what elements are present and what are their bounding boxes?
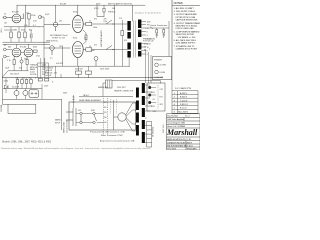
svg-text:Iss. 2: Iss. 2 xyxy=(185,116,190,118)
svg-text:47k: 47k xyxy=(94,19,97,21)
svg-text:POINT TO CH.: POINT TO CH. xyxy=(52,38,66,40)
input jack J3 xyxy=(3,55,6,58)
svg-text:120: 120 xyxy=(104,107,107,109)
label T2 taps xyxy=(151,92,157,113)
rear panel box xyxy=(69,102,136,130)
svg-text:MILTON KEYNES MK1 1DQ: MILTON KEYNES MK1 1DQ xyxy=(167,146,193,148)
resistor R4 xyxy=(24,32,26,38)
svg-text:220k: 220k xyxy=(31,15,35,17)
wire panel series bottom xyxy=(76,122,104,124)
svg-text:FOR 16 OHM LOAD: FOR 16 OHM LOAD xyxy=(176,27,195,30)
svg-text:0.68: 0.68 xyxy=(33,20,37,22)
svg-text:EXT: EXT xyxy=(160,97,163,99)
wire volume to V4 xyxy=(44,24,70,26)
fuse F1 xyxy=(80,112,82,123)
wire speaker drops xyxy=(146,49,152,83)
tube V1 xyxy=(12,14,21,23)
svg-text:Output Transformer: Output Transformer xyxy=(135,11,161,14)
svg-text:4: 4 xyxy=(147,35,148,37)
svg-text:8: 8 xyxy=(147,50,148,52)
wire screen node riser xyxy=(97,5,104,16)
wire pots to bus xyxy=(14,63,27,71)
svg-text:8.2k: 8.2k xyxy=(104,21,108,23)
svg-text:470k: 470k xyxy=(21,29,25,31)
capacitor C1 xyxy=(23,14,25,20)
connector CON1 xyxy=(106,80,113,88)
svg-text:16 OHM: 16 OHM xyxy=(160,65,167,67)
svg-text:C 170 V: C 170 V xyxy=(180,100,188,102)
switch S2 anode top xyxy=(106,20,115,24)
svg-text:Models: 1986, 198L, 1987, 4500: Models: 1986, 198L, 1987, 4500, 4501 & 4… xyxy=(2,141,52,144)
output transformer T1 secondary xyxy=(138,20,141,57)
wire PI node riser xyxy=(114,5,116,20)
svg-text:REAR PANEL ASSEMBLY: REAR PANEL ASSEMBLY xyxy=(79,99,102,102)
svg-text:SELECTED IN TEST: SELECTED IN TEST xyxy=(176,34,196,36)
svg-text:ENGLAND: ENGLAND xyxy=(187,148,197,150)
svg-text:2. 250V SUPPLY 330uF: 2. 250V SUPPLY 330uF xyxy=(174,11,196,13)
svg-text:2A SLO: 2A SLO xyxy=(83,94,90,97)
svg-text:MATCHED TO 3.8k A-A: MATCHED TO 3.8k A-A xyxy=(176,25,198,28)
title block frame xyxy=(167,114,201,150)
svg-text:Amp chassis to rear panel wiri: Amp chassis to rear panel wiring 2 x 13A xyxy=(100,139,135,142)
label row1 values xyxy=(14,29,32,31)
tube V2b xyxy=(24,48,33,57)
capacitor C19 bypass xyxy=(20,60,23,63)
svg-text:DRG 1959: DRG 1959 xyxy=(163,125,165,134)
wire selector top line xyxy=(100,96,133,98)
svg-text:8: 8 xyxy=(144,49,145,51)
jack JP3 xyxy=(148,101,151,104)
svg-text:SLOPE: SLOPE xyxy=(30,74,37,76)
wire risers row1 lower xyxy=(11,27,31,42)
resistor R11 dropper xyxy=(86,71,92,74)
svg-text:CATHODE RESISTORS: CATHODE RESISTORS xyxy=(176,19,198,22)
resistor R10 dropper xyxy=(76,71,82,74)
wire feedback vertical xyxy=(121,20,123,66)
resistor R20 cathode V2b xyxy=(26,60,28,65)
svg-text:COM: COM xyxy=(144,43,149,45)
wire cap links xyxy=(17,84,43,99)
jack JA2 xyxy=(155,70,159,74)
label OT taps xyxy=(147,21,152,56)
wire dropper riser xyxy=(103,5,105,16)
svg-text:4. OUTPUT TRANSFORMER: 4. OUTPUT TRANSFORMER xyxy=(174,22,200,25)
resistor R1 xyxy=(28,14,30,20)
label bias note xyxy=(50,34,68,40)
svg-text:TEL 0908: TEL 0908 xyxy=(167,149,176,150)
wire jack stubs xyxy=(151,88,156,103)
svg-text:4: 4 xyxy=(147,54,148,56)
svg-text:10k 220uF: 10k 220uF xyxy=(10,74,20,76)
svg-text:465V: 465V xyxy=(96,3,101,5)
wire psu lower L xyxy=(3,104,36,113)
svg-text:68k: 68k xyxy=(14,29,17,31)
wire row2 bus xyxy=(3,43,51,45)
svg-text:V2: V2 xyxy=(4,45,6,47)
wire T2 sec taps xyxy=(145,85,152,143)
svg-text:ECC83: ECC83 xyxy=(20,46,26,48)
svg-text:(SEE NOTE 5): (SEE NOTE 5) xyxy=(46,41,58,43)
wire grid bus row1 xyxy=(4,26,40,28)
svg-text:230V SET: 230V SET xyxy=(117,87,126,89)
label row2 values xyxy=(7,46,37,62)
wire dropper drops xyxy=(79,66,89,77)
svg-text:FITTED WITH 1 OHM: FITTED WITH 1 OHM xyxy=(176,17,196,19)
wire psu bus y88.5 xyxy=(3,88,42,90)
svg-text:6. ALL CAPS 400V WKG: 6. ALL CAPS 400V WKG xyxy=(174,39,197,42)
svg-text:47k 5W: 47k 5W xyxy=(146,39,152,41)
input jack J1 xyxy=(3,16,12,19)
svg-text:320: 320 xyxy=(19,67,22,69)
svg-text:3. OUTPUT VALVES ARE: 3. OUTPUT VALVES ARE xyxy=(174,13,198,16)
svg-text:820: 820 xyxy=(29,29,32,31)
wire rail left tick xyxy=(16,5,18,14)
wire psu feed right xyxy=(79,96,100,98)
notes box border xyxy=(171,0,173,58)
wire tone verticals xyxy=(38,58,49,78)
resistor R16 on rail xyxy=(38,78,42,81)
jack JA1 xyxy=(155,63,159,67)
svg-text:8: 8 xyxy=(147,31,148,33)
svg-text:0.68 35V: 0.68 35V xyxy=(56,63,64,65)
label title address xyxy=(167,138,197,151)
wire V4 anode to OT xyxy=(83,23,127,25)
wire PI vertical xyxy=(114,20,116,66)
input jack J2 xyxy=(3,48,6,51)
svg-text:Schematic archive copy . Marsh: Schematic archive copy . Marshall 50 wat… xyxy=(1,147,151,150)
svg-text:820k: 820k xyxy=(33,46,37,48)
svg-text:B 320 V: B 320 V xyxy=(180,97,188,99)
resistor R22 presence xyxy=(156,30,158,34)
svg-text:220k 5W: 220k 5W xyxy=(75,69,83,71)
resistor R15 screen V5 xyxy=(86,48,92,51)
svg-text:ECC83: ECC83 xyxy=(60,3,66,5)
svg-text:Bias 30mV: Bias 30mV xyxy=(178,111,188,113)
wire bus row1 bottom xyxy=(3,41,51,43)
resistor R3 xyxy=(18,32,20,38)
svg-text:POST 66 3.4k: POST 66 3.4k xyxy=(143,41,154,43)
resistor R25 xyxy=(21,80,24,84)
svg-text:FS1: FS1 xyxy=(78,110,81,112)
svg-text:230: 230 xyxy=(104,117,107,119)
wire psu drop xyxy=(61,99,63,130)
label lower taps xyxy=(144,43,150,51)
svg-text:Circuit Diagram 1987: Circuit Diagram 1987 xyxy=(167,122,185,125)
wire diagonal ground xyxy=(2,71,8,78)
wire psu hangers xyxy=(6,78,31,93)
svg-text:1k: 1k xyxy=(89,46,91,48)
resistor R26 xyxy=(25,80,28,84)
svg-text:47k: 47k xyxy=(94,44,97,46)
capacitor C3 link xyxy=(38,15,41,18)
svg-text:MAINS LEAD: MAINS LEAD xyxy=(62,121,65,133)
svg-text:240: 240 xyxy=(104,122,107,124)
wire row2 lower bus xyxy=(8,70,29,72)
capacitor C20 presence xyxy=(156,33,158,38)
tube V5 power xyxy=(72,42,83,58)
wire selector feed xyxy=(113,100,115,130)
jack JP1 xyxy=(148,86,151,89)
mains transformer T2 secondary xyxy=(142,83,145,143)
potentiometer VR4 volume I xyxy=(53,22,58,31)
resistor R23 presence xyxy=(163,30,165,34)
svg-text:50Hz MAINS SUPPLY: 50Hz MAINS SUPPLY xyxy=(176,42,197,45)
svg-text:PRES 5k: PRES 5k xyxy=(108,11,115,13)
svg-text:V1: V1 xyxy=(4,14,6,16)
wire selector stem xyxy=(114,116,118,118)
resistor R27 xyxy=(30,80,33,84)
wire V1 plate riser xyxy=(25,5,27,13)
wire right border xyxy=(171,58,173,91)
svg-text:VOLTAGES +/- 10%: VOLTAGES +/- 10% xyxy=(178,36,196,39)
switch S1 mains xyxy=(93,112,97,123)
wire mains cable entry xyxy=(72,95,74,108)
voltage table xyxy=(172,91,198,114)
label extra values scatter xyxy=(4,11,127,94)
svg-text:5. COMPONENTS MARKED *: 5. COMPONENTS MARKED * xyxy=(174,30,200,33)
wire volume node drop xyxy=(62,46,64,67)
svg-text:MATCHED VALVES: MATCHED VALVES xyxy=(100,29,103,47)
potentiometer VR5 volume II xyxy=(50,46,55,55)
svg-text:10k: 10k xyxy=(112,8,115,10)
label psu top values xyxy=(4,78,38,89)
svg-text:SPEAKER: SPEAKER xyxy=(154,58,163,61)
diode D1 xyxy=(5,85,9,89)
wire channel link xyxy=(39,17,45,66)
tube V4 power xyxy=(72,15,83,32)
wire mid rail xyxy=(2,77,163,79)
svg-text:Drg. Number: Drg. Number xyxy=(167,115,178,118)
capacitor C21 presence xyxy=(163,33,165,38)
svg-text:8 OHM: 8 OHM xyxy=(160,72,166,74)
label notes text xyxy=(174,7,201,51)
svg-text:7. FIT EARTH LINK TO: 7. FIT EARTH LINK TO xyxy=(174,45,195,48)
svg-text:HEATER CONNECTOR: HEATER CONNECTOR xyxy=(114,89,134,92)
svg-text:OUT: OUT xyxy=(160,89,164,91)
wire psu bus y99.3 xyxy=(3,98,62,100)
wire volume feed riser xyxy=(55,5,57,22)
mains transformer T2 primary xyxy=(136,88,139,136)
svg-text:HT WINDING: HT WINDING xyxy=(153,126,155,137)
label selector ticks xyxy=(104,102,107,124)
wire panel series top xyxy=(76,113,104,115)
wire OT centre tap riser xyxy=(132,5,134,21)
wire panel dashed xyxy=(104,98,108,135)
svg-text:4.7k: 4.7k xyxy=(24,25,28,27)
output transformer T1 core xyxy=(134,21,136,58)
svg-text:100k: 100k xyxy=(93,27,97,29)
wire volume to V5 xyxy=(44,47,70,49)
notes underline xyxy=(172,4,200,6)
wire selector dotted xyxy=(111,99,117,114)
wire V5 anode to OT xyxy=(83,49,127,51)
svg-text:330: 330 xyxy=(24,59,27,61)
wire row1 second bus xyxy=(4,29,14,31)
svg-text:MAINS: MAINS xyxy=(55,118,61,121)
svg-text:EL34: EL34 xyxy=(73,38,77,40)
capacitor C18 multican xyxy=(29,90,39,98)
resistor R24 xyxy=(16,80,19,84)
resistor R2 xyxy=(10,32,12,38)
svg-text:D 83.5 V: D 83.5 V xyxy=(180,104,188,106)
wire V5 cathode xyxy=(77,58,79,67)
svg-text:DENBIGH RD BLETCHLEY: DENBIGH RD BLETCHLEY xyxy=(167,142,192,144)
capacitor C17 xyxy=(23,91,28,96)
svg-text:50uF 450V: 50uF 450V xyxy=(100,69,110,71)
label row1 values top xyxy=(24,25,36,27)
svg-text:COLOUR CODE: COLOUR CODE xyxy=(66,119,68,133)
svg-text:2.7k: 2.7k xyxy=(7,60,11,62)
svg-text:0.022: 0.022 xyxy=(45,14,50,16)
wire panel dashed riser xyxy=(157,85,159,109)
svg-text:SW1: SW1 xyxy=(91,110,95,112)
svg-text:10k LIN: 10k LIN xyxy=(45,75,52,77)
wire cathode taps xyxy=(83,30,86,44)
wire row2 grid xyxy=(6,44,28,60)
label OT matching note xyxy=(143,38,155,42)
voltage selector SW2 xyxy=(118,103,133,131)
svg-text:68k: 68k xyxy=(8,46,11,48)
resistor R21 mixer xyxy=(34,50,38,52)
resistor R14 cathode link xyxy=(85,33,87,42)
svg-text:AMPLIFICATION PLC LTD: AMPLIFICATION PLC LTD xyxy=(167,138,191,141)
svg-text:ECC83: ECC83 xyxy=(12,12,19,14)
wire lower HT rail xyxy=(38,65,130,67)
capacitor C16 xyxy=(14,91,19,96)
svg-text:470k: 470k xyxy=(36,55,40,57)
wire NFB vertical xyxy=(168,21,170,57)
label tone stack xyxy=(10,64,47,76)
svg-text:0.1: 0.1 xyxy=(50,57,53,59)
resistor R8 screen V4 xyxy=(86,22,92,25)
svg-text:INPUT: INPUT xyxy=(55,122,61,124)
wire power tube V4 anode riser xyxy=(77,5,79,15)
resistor R19 cathode V2a xyxy=(13,60,15,65)
svg-text:D.C. CHECK PTS: D.C. CHECK PTS xyxy=(175,88,192,90)
jack JP2 xyxy=(148,94,151,97)
svg-text:1k: 1k xyxy=(89,20,91,22)
svg-text:E 1.6 V: E 1.6 V xyxy=(180,108,187,110)
switch S3 anode bottom xyxy=(106,46,115,50)
svg-text:220: 220 xyxy=(104,112,107,114)
svg-text:Mains Transformer T2562: Mains Transformer T2562 xyxy=(101,134,123,137)
label jack box A xyxy=(154,58,166,79)
svg-text:NOTES:: NOTES: xyxy=(174,1,184,5)
svg-text:EL34: EL34 xyxy=(73,11,77,13)
svg-text:0.1: 0.1 xyxy=(33,25,36,27)
wire OT secondary taps xyxy=(141,22,146,55)
label table rows xyxy=(174,92,189,114)
svg-text:SEE 765 AMP HT SECTION: SEE 765 AMP HT SECTION xyxy=(108,2,133,5)
svg-text:GZ34: GZ34 xyxy=(4,81,9,83)
terminal strip TS1 xyxy=(147,122,152,148)
svg-text:470R: 470R xyxy=(94,8,99,10)
wire mid risers xyxy=(56,66,62,77)
svg-text:Primary wired for 240V operati: Primary wired for 240V operation 2 x 13A xyxy=(90,131,125,134)
wire left border xyxy=(2,58,4,104)
wire presence feed xyxy=(145,27,169,30)
tube V2a xyxy=(12,48,21,57)
wire OT primary return xyxy=(128,58,130,67)
resistor R9 feedback xyxy=(121,31,124,36)
speaker panel box B xyxy=(147,83,165,111)
capacitor C2 xyxy=(30,34,32,39)
svg-text:Output Transformer: Output Transformer xyxy=(150,24,168,27)
svg-text:NORMAL: NORMAL xyxy=(0,104,3,112)
wire T2 primary links xyxy=(133,103,137,131)
svg-text:MAINS SEL.: MAINS SEL. xyxy=(98,86,109,89)
svg-text:Marshall: Marshall xyxy=(166,128,198,137)
resistor R17 on rail xyxy=(45,78,49,81)
mains plug P1 xyxy=(66,108,76,126)
wire V1 output xyxy=(21,13,29,27)
resistor R28 dropper xyxy=(103,8,105,12)
potentiometer hum balance xyxy=(94,57,98,67)
svg-text:50W Valve Amplifier: 50W Valve Amplifier xyxy=(167,118,184,121)
svg-text:27k: 27k xyxy=(119,18,122,20)
svg-text:16: 16 xyxy=(144,46,146,48)
svg-text:105: 105 xyxy=(104,102,107,104)
svg-text:100k: 100k xyxy=(91,50,95,52)
wire HT top rail xyxy=(17,4,145,6)
svg-text:A 325 V: A 325 V xyxy=(180,92,188,95)
label title rows xyxy=(167,115,189,129)
output transformer T1 primary xyxy=(127,21,130,58)
wire heater feed xyxy=(103,81,161,97)
svg-text:47k: 47k xyxy=(124,40,127,42)
svg-text:HIGH: HIGH xyxy=(1,28,3,33)
jack box A xyxy=(153,57,172,80)
label fuse switch xyxy=(55,110,95,124)
label panel B xyxy=(160,89,164,106)
svg-text:SET BIAS AT 35mV: SET BIAS AT 35mV xyxy=(50,34,68,37)
svg-text:4: 4 xyxy=(149,49,150,51)
svg-text:1. ALL RES. 1/2 WATT: 1. ALL RES. 1/2 WATT xyxy=(174,7,195,10)
svg-text:CHASSIS STUD POINT: CHASSIS STUD POINT xyxy=(176,48,198,51)
label top rail values xyxy=(60,2,133,70)
